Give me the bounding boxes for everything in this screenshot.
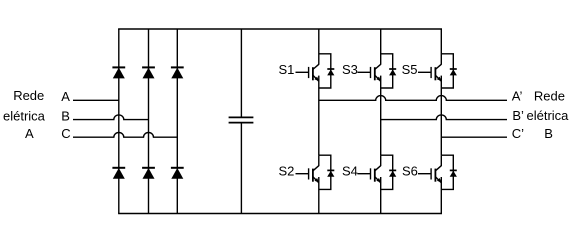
wire: rectifier leg 2 (phase B) — [148, 29, 150, 214]
diode D2 (upper rectifier, leg 2) — [142, 67, 155, 78]
wire: input phase C to rectifier leg 3 with hops over legs 1 and 2, node C — [73, 133, 177, 138]
wire: output phase A’ from leg 1 midpoint with hops over legs 2 and 3 — [319, 96, 507, 101]
wire: gate lead of S6 — [418, 173, 431, 175]
wire: freewheeling-diode branch of S2 — [319, 155, 331, 189]
wire: rectifier leg 1 (phase A) — [118, 29, 120, 214]
svg-text:A’: A’ — [512, 88, 523, 103]
diode D4 (lower rectifier, leg 1) — [112, 168, 125, 179]
svg-text:S4: S4 — [342, 164, 358, 179]
wire: gate lead of S4 — [357, 173, 370, 175]
svg-text:C: C — [61, 126, 70, 141]
svg-text:C’: C’ — [512, 126, 524, 141]
wire: positive DC rail (top) — [118, 28, 442, 30]
diode D3 (upper rectifier, leg 3) — [171, 67, 184, 78]
wire: freewheeling-diode branch of S4 — [381, 155, 393, 189]
wire: input phase A from label to rectifier leg 1, node A — [73, 99, 119, 101]
diode D1 (upper rectifier, leg 1) — [112, 67, 125, 78]
wire: freewheeling-diode branch of S1 — [319, 54, 331, 88]
IGBT S2 — [309, 155, 320, 213]
svg-text:A: A — [25, 126, 34, 141]
svg-text:B’: B’ — [512, 108, 524, 123]
wire: gate lead of S3 — [357, 71, 370, 73]
wire: gate lead of S5 — [418, 71, 431, 73]
svg-text:A: A — [61, 89, 70, 104]
IGBT S3 — [371, 29, 382, 155]
IGBT S1 — [309, 29, 320, 155]
IGBT S6 — [431, 155, 442, 213]
wire: output phase C’ from leg 3 midpoint — [441, 136, 507, 138]
diode D6 (lower rectifier, leg 3) — [171, 168, 184, 179]
IGBT S4 — [371, 155, 382, 213]
wire: input phase B to rectifier leg 2 with hop over leg 1, node B — [73, 115, 149, 120]
svg-text:elétrica: elétrica — [3, 109, 46, 124]
wire: freewheeling-diode branch of S3 — [381, 54, 393, 88]
IGBT S5 — [431, 29, 442, 155]
svg-text:elétrica: elétrica — [527, 108, 570, 123]
svg-text:S2: S2 — [279, 164, 295, 179]
freewheeling diode of S4 — [389, 170, 396, 176]
svg-text:S6: S6 — [402, 164, 418, 179]
svg-text:S3: S3 — [342, 62, 358, 77]
freewheeling diode of S3 — [389, 69, 396, 75]
freewheeling diode of S1 — [327, 69, 334, 75]
freewheeling diode of S6 — [450, 170, 457, 176]
freewheeling diode of S2 — [327, 170, 334, 176]
wire: gate lead of S2 — [296, 173, 309, 175]
wire: rectifier leg 3 (phase C) — [176, 29, 178, 214]
svg-text:B: B — [61, 109, 70, 124]
svg-text:B: B — [544, 126, 553, 141]
wire: gate lead of S1 — [296, 71, 309, 73]
wire: output phase B’ from leg 2 midpoint with hop over leg 3 — [381, 115, 507, 120]
wire: freewheeling-diode branch of S6 — [441, 155, 453, 189]
svg-text:S5: S5 — [402, 62, 418, 77]
capacitor C (DC link) — [229, 29, 254, 214]
svg-text:Rede: Rede — [13, 88, 44, 103]
wire: negative DC rail (bottom) — [118, 213, 442, 215]
diode D5 (lower rectifier, leg 2) — [142, 168, 155, 179]
svg-text:Rede: Rede — [534, 88, 565, 103]
freewheeling diode of S5 — [450, 69, 457, 75]
svg-text:S1: S1 — [279, 62, 295, 77]
wire: freewheeling-diode branch of S5 — [441, 54, 453, 88]
